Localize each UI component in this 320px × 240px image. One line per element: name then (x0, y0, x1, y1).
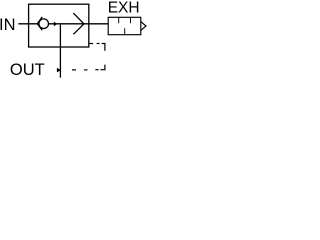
pilot line corner dash bottom (100, 65, 105, 70)
check valve poppet circle (39, 19, 49, 29)
wire valve body to silencer (89, 23, 108, 25)
pilot line dash 4 (84, 69, 88, 71)
svg-text:OUT: OUT (10, 61, 45, 79)
svg-text:IN: IN (0, 16, 16, 34)
silencer outlet triangle (141, 22, 146, 31)
silencer baffle tick left (118, 17, 120, 23)
pilot line dash 1 (89, 43, 93, 45)
pilot line dash 2 (97, 43, 100, 45)
pilot line corner dash top (102, 44, 105, 51)
silencer baffle tick bottom (124, 28, 126, 34)
silencer baffle tick right (130, 17, 132, 23)
flow arrow on main line (54, 22, 58, 27)
wire check valve to EXH arrow (49, 23, 89, 25)
wire junction to OUT (59, 24, 61, 78)
pilot line dash 3 (95, 69, 98, 71)
valve body box (29, 4, 89, 47)
OUT flow arrow (57, 68, 61, 73)
silencer body (108, 17, 141, 34)
svg-text:EXH: EXH (108, 0, 140, 16)
wire IN to valve body (18, 23, 37, 25)
pilot line dash 5 (72, 69, 76, 71)
flow arrow to EXH (73, 13, 84, 34)
check valve seat (37, 17, 42, 30)
